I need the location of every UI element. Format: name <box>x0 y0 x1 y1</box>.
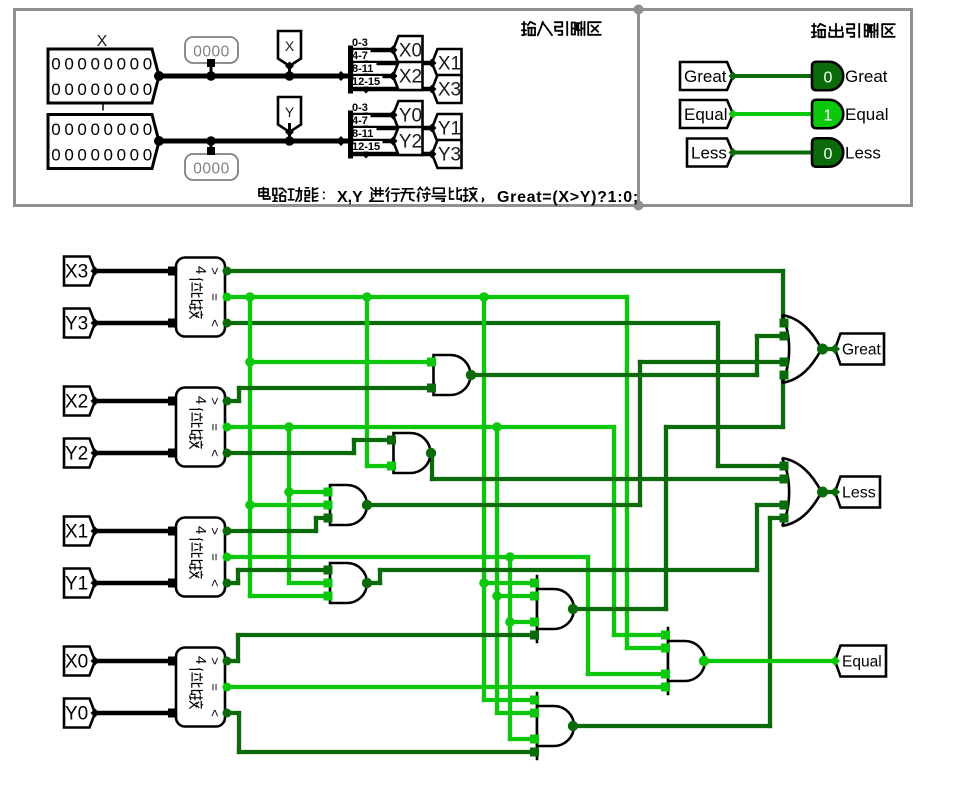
svg-text:12-15: 12-15 <box>352 141 380 153</box>
svg-text:X: X <box>285 38 295 54</box>
svg-text:0: 0 <box>51 146 60 165</box>
svg-text:0: 0 <box>77 55 86 74</box>
svg-text:Y1: Y1 <box>65 574 88 595</box>
svg-text:<: < <box>208 319 223 327</box>
svg-text:0: 0 <box>51 55 60 74</box>
svg-text:>: > <box>208 267 223 275</box>
svg-text:8-11: 8-11 <box>352 63 373 75</box>
svg-text:0: 0 <box>104 55 113 74</box>
svg-text:Great: Great <box>684 67 727 86</box>
svg-text:0: 0 <box>77 120 86 139</box>
svg-text:0: 0 <box>64 120 73 139</box>
svg-text:X: X <box>97 33 108 50</box>
svg-text:0: 0 <box>143 120 152 139</box>
svg-text:0000: 0000 <box>193 44 229 61</box>
svg-text:<: < <box>208 449 223 457</box>
svg-text:Great=(X>Y)?1:0;: Great=(X>Y)?1:0; <box>497 189 639 206</box>
svg-text:0: 0 <box>143 146 152 165</box>
svg-text:0: 0 <box>143 55 152 74</box>
svg-text:0: 0 <box>77 146 86 165</box>
svg-text:X3: X3 <box>438 80 461 101</box>
svg-text:0: 0 <box>90 80 99 99</box>
svg-text:0: 0 <box>824 69 833 86</box>
svg-text:0: 0 <box>117 146 126 165</box>
svg-text:0: 0 <box>824 146 833 163</box>
svg-text:0: 0 <box>117 120 126 139</box>
svg-text:0: 0 <box>130 80 139 99</box>
svg-text:X2: X2 <box>399 67 422 88</box>
svg-text:0: 0 <box>104 120 113 139</box>
svg-text:=: = <box>208 293 223 301</box>
svg-text:4: 4 <box>192 526 209 534</box>
svg-text:4: 4 <box>192 396 209 404</box>
svg-text:0: 0 <box>51 120 60 139</box>
svg-text:4: 4 <box>192 266 209 274</box>
svg-text:Equal: Equal <box>845 105 888 124</box>
svg-text:>: > <box>208 397 223 405</box>
svg-text:Less: Less <box>691 144 727 163</box>
svg-text:Y0: Y0 <box>399 106 422 127</box>
svg-text:0000: 0000 <box>193 161 229 178</box>
svg-text:X3: X3 <box>65 262 88 283</box>
svg-text:<: < <box>208 579 223 587</box>
svg-text:Great: Great <box>845 67 888 86</box>
svg-text:4-7: 4-7 <box>352 50 368 62</box>
svg-text:Y1: Y1 <box>438 119 461 140</box>
svg-text:0: 0 <box>64 80 73 99</box>
svg-text:0: 0 <box>117 55 126 74</box>
svg-text:0: 0 <box>90 146 99 165</box>
svg-text:0: 0 <box>51 80 60 99</box>
svg-text:4: 4 <box>192 656 209 664</box>
svg-text:>: > <box>208 657 223 665</box>
svg-text:0: 0 <box>130 55 139 74</box>
svg-text:Less: Less <box>845 144 881 163</box>
svg-text:X0: X0 <box>65 652 88 673</box>
svg-text:0-3: 0-3 <box>352 102 368 114</box>
svg-text:=: = <box>208 683 223 691</box>
svg-text:0-3: 0-3 <box>352 37 368 49</box>
svg-text:0: 0 <box>64 146 73 165</box>
svg-text:Less: Less <box>842 485 876 502</box>
svg-text:Y3: Y3 <box>438 145 461 166</box>
svg-text:0: 0 <box>90 120 99 139</box>
svg-text:0: 0 <box>130 120 139 139</box>
svg-text:Equal: Equal <box>842 654 882 671</box>
svg-text:Equal: Equal <box>684 105 727 124</box>
svg-text:0: 0 <box>64 55 73 74</box>
svg-text:<: < <box>208 709 223 717</box>
svg-text:0: 0 <box>117 80 126 99</box>
svg-text:Y2: Y2 <box>399 132 422 153</box>
svg-text:X2: X2 <box>65 392 88 413</box>
svg-text:Y3: Y3 <box>65 314 88 335</box>
svg-text:12-15: 12-15 <box>352 76 380 88</box>
svg-text:0: 0 <box>143 80 152 99</box>
svg-text:X0: X0 <box>399 41 422 62</box>
svg-text:0: 0 <box>104 146 113 165</box>
svg-text:Y2: Y2 <box>65 444 88 465</box>
svg-text:Y0: Y0 <box>65 704 88 725</box>
svg-text:Great: Great <box>842 342 881 359</box>
svg-text:X1: X1 <box>65 522 88 543</box>
svg-text:X1: X1 <box>438 54 461 75</box>
svg-text:0: 0 <box>90 55 99 74</box>
svg-text:X,Y: X,Y <box>337 189 363 206</box>
svg-text:=: = <box>208 423 223 431</box>
svg-text:4-7: 4-7 <box>352 115 368 127</box>
svg-text:0: 0 <box>77 80 86 99</box>
svg-text:1: 1 <box>824 107 833 124</box>
svg-text:8-11: 8-11 <box>352 128 373 140</box>
svg-text:>: > <box>208 527 223 535</box>
svg-text:0: 0 <box>104 80 113 99</box>
svg-text:=: = <box>208 553 223 561</box>
svg-text:0: 0 <box>130 146 139 165</box>
svg-text:Y: Y <box>285 104 295 120</box>
